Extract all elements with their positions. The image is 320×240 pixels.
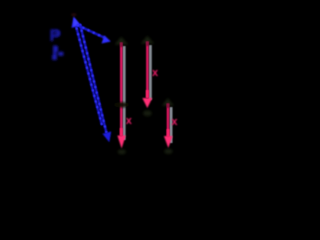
bar C dark top arrowhead — [162, 98, 174, 106]
arrowhead up-left — [71, 13, 76, 16]
bar C pink shaft — [167, 104, 170, 137]
bar B gray shadow — [149, 45, 152, 100]
bar A dark smudge — [118, 149, 126, 154]
bar B dark smudge — [143, 110, 152, 116]
bar A dark crossbar — [114, 102, 129, 107]
bar C gray shadow — [170, 107, 173, 143]
label P-prime glyph — [52, 46, 63, 61]
arrowhead right-down — [102, 35, 111, 43]
wire: up-ray shaft — [76, 26, 102, 125]
svg-text:x: x — [126, 115, 133, 127]
wire: right-ray shaft — [77, 25, 104, 38]
bar A bottom pink arrowhead — [117, 136, 125, 149]
svg-text:x: x — [152, 67, 159, 79]
bar B dark top arrowhead — [141, 36, 154, 44]
bar A pink shaft — [120, 43, 123, 136]
bar C dark smudge — [164, 149, 172, 154]
svg-text:x: x — [171, 116, 178, 128]
wire: down-ray shaft — [80, 24, 107, 133]
arrowhead down — [103, 132, 112, 143]
bar A dark top arrowhead — [115, 37, 129, 45]
bar C bottom pink arrowhead — [164, 136, 173, 148]
bar A gray shadow — [123, 46, 126, 140]
bar B pink shaft — [146, 42, 149, 98]
bar B bottom pink arrowhead — [142, 98, 152, 108]
